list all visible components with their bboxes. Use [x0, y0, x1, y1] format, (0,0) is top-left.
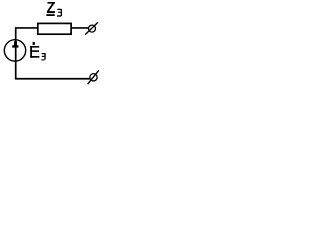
wire bottom horizontal	[15, 78, 90, 80]
label Z3: letter Z (hand drawn)	[47, 2, 55, 13]
terminal top circle	[89, 25, 96, 32]
terminal bottom circle	[90, 74, 97, 81]
wire left vertical (passes through source symbol)	[15, 28, 17, 79]
source E3 circle	[4, 40, 25, 61]
label E3: dot over E	[33, 42, 35, 45]
terminal top slash	[85, 22, 98, 34]
label Z3: underline	[46, 14, 54, 16]
wire top horizontal	[15, 27, 89, 29]
label Z3: subscript 3 (hand drawn)	[57, 9, 62, 17]
impedance Z3 box	[38, 23, 71, 34]
terminal bottom slash	[88, 70, 99, 84]
source E3 arrowhead (points up)	[12, 41, 18, 47]
label E3: subscript 3 (hand drawn)	[41, 53, 45, 60]
label E3: letter E (hand drawn)	[30, 46, 39, 58]
